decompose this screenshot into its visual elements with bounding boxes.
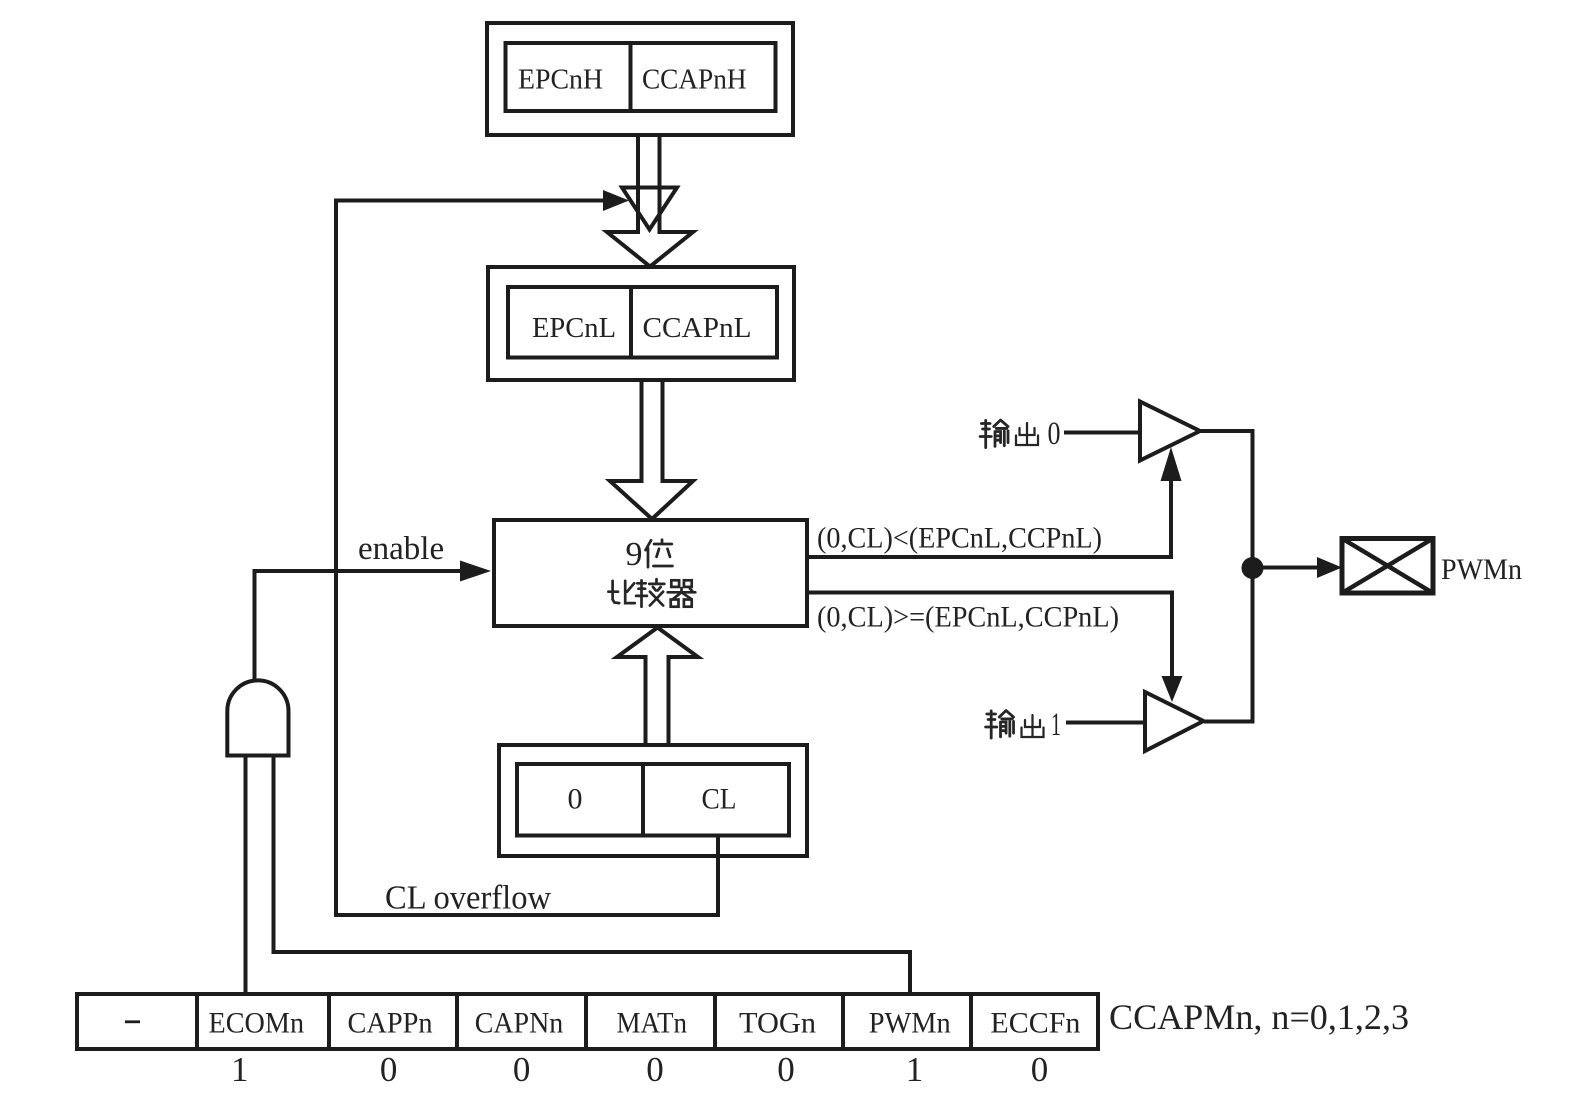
svg-text:PWMn: PWMn: [869, 1007, 951, 1040]
svg-text:0: 0: [380, 1050, 398, 1089]
svg-text:1: 1: [1051, 707, 1061, 743]
svg-text:(0,CL)<(EPCnL,CCPnL): (0,CL)<(EPCnL,CCPnL): [817, 522, 1102, 555]
svg-text:PWMn: PWMn: [1441, 553, 1522, 586]
svg-text:enable: enable: [358, 531, 444, 567]
svg-text:0: 0: [513, 1050, 531, 1089]
svg-text:(0,CL)>=(EPCnL,CCPnL): (0,CL)>=(EPCnL,CCPnL): [817, 601, 1119, 634]
svg-text:0: 0: [777, 1050, 795, 1089]
svg-text:CCAPnL: CCAPnL: [643, 312, 752, 344]
svg-text:ECOMn: ECOMn: [209, 1007, 305, 1040]
svg-text:CCAPnH: CCAPnH: [642, 64, 747, 96]
svg-text:0: 0: [1031, 1050, 1049, 1089]
svg-text:CAPPn: CAPPn: [348, 1007, 433, 1040]
svg-text:CL: CL: [702, 783, 737, 816]
svg-text:CL overflow: CL overflow: [385, 880, 552, 917]
svg-text:9: 9: [626, 536, 643, 573]
svg-text:0: 0: [568, 783, 583, 816]
svg-text:CCAPMn, n=0,1,2,3: CCAPMn, n=0,1,2,3: [1109, 997, 1409, 1037]
svg-text:EPCnL: EPCnL: [532, 312, 616, 344]
svg-text:ECCFn: ECCFn: [990, 1007, 1080, 1040]
svg-text:0: 0: [1048, 416, 1061, 452]
svg-text:TOGn: TOGn: [739, 1007, 816, 1040]
svg-text:1: 1: [231, 1050, 249, 1089]
svg-text:CAPNn: CAPNn: [475, 1007, 564, 1040]
svg-text:MATn: MATn: [617, 1007, 688, 1040]
svg-text:EPCnH: EPCnH: [518, 64, 603, 96]
svg-text:0: 0: [646, 1050, 664, 1089]
svg-text:1: 1: [906, 1050, 924, 1089]
